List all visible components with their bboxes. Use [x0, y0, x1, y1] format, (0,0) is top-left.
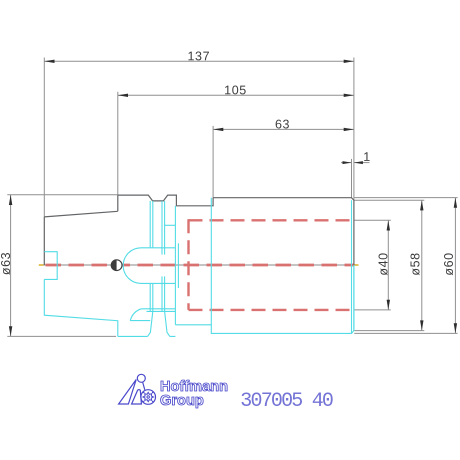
dimension dia63 line	[7, 195, 118, 337]
dimension 105 arrows	[118, 94, 354, 97]
dimension 63 text	[275, 117, 290, 131]
svg-text:ø40: ø40	[376, 252, 390, 275]
dimension dia40 arrows	[387, 220, 390, 310]
dimension dia58 text	[408, 252, 422, 275]
dimension 137 line	[44, 60, 354, 62]
dimension 105 text	[224, 83, 247, 97]
svg-text:63: 63	[275, 117, 290, 131]
flange right edge cyan	[174, 206, 176, 325]
body joint line cyan	[210, 198, 212, 325]
centerline yellow ticks	[39, 264, 359, 266]
dimension 105 line	[118, 94, 354, 96]
dimension 137 arrows	[44, 60, 354, 63]
body top outline	[213, 198, 354, 265]
dimension dia40 text	[376, 252, 390, 275]
logo text Hoffmann	[160, 379, 228, 395]
drive slot tooth lower flange	[148, 311, 170, 336]
dimension 1 text	[363, 150, 371, 164]
coolant ball	[111, 260, 122, 271]
centerline thin	[41, 264, 358, 266]
svg-text:Group: Group	[160, 393, 204, 409]
gripper groove arc lower flange	[130, 309, 175, 321]
end face lower edge cyan	[353, 265, 355, 331]
gripper fingers vertical pair B	[162, 201, 165, 311]
svg-text:307005 40: 307005 40	[240, 390, 333, 413]
dimension 137 extension line right	[353, 58, 355, 201]
Hoffmann Group logo mark	[119, 374, 156, 404]
end face inner edge cyan	[351, 200, 353, 333]
dimension dia60 line	[354, 198, 457, 334]
gripper fingers vertical pair A	[150, 201, 153, 311]
drawbar shoulder stubs	[165, 225, 179, 288]
bore dashed rectangle left	[187, 219, 189, 310]
dimension dia63 arrows	[9, 195, 12, 337]
dimension dia58 line	[355, 200, 425, 330]
dimension 137 extension line left	[43, 58, 45, 217]
dimension dia58 arrows	[420, 200, 423, 330]
flange bottom outline with tooth	[118, 335, 176, 337]
svg-text:1: 1	[363, 150, 371, 164]
logo text Group	[160, 393, 204, 409]
svg-text:ø63: ø63	[0, 252, 13, 275]
dimension dia60 arrows	[454, 198, 457, 334]
logo gear	[143, 392, 153, 401]
dimension 1 lines	[341, 159, 370, 198]
bore dashed rectangle top	[189, 219, 352, 221]
dimension 63 extension line left	[212, 126, 214, 198]
svg-text:105: 105	[224, 83, 247, 97]
svg-text:ø58: ø58	[408, 252, 422, 275]
coolant tube box at taper face	[44, 252, 57, 280]
bore dashed rectangle bottom	[189, 309, 352, 311]
svg-text:ø60: ø60	[442, 252, 456, 275]
dimension dia60 text	[442, 252, 456, 275]
dimension dia40 line	[355, 220, 391, 310]
taper lower outline cyan	[44, 279, 118, 336]
centerline red dashes	[46, 264, 354, 267]
dimension 105 extension line left	[117, 92, 119, 195]
flange top outline with V-notch	[118, 195, 213, 206]
dimension 63 line	[213, 128, 354, 130]
dimension 63 arrows	[213, 128, 354, 131]
dimension dia63 text	[0, 252, 13, 275]
drawbar capsule	[123, 248, 175, 284]
neck and body bottom outline cyan	[175, 265, 354, 333]
svg-text:137: 137	[187, 49, 210, 63]
dimension 1 arrows	[343, 161, 363, 164]
dimension 137 text	[187, 49, 210, 63]
part number 307005 40	[240, 390, 333, 413]
taper upper outline	[44, 195, 118, 265]
